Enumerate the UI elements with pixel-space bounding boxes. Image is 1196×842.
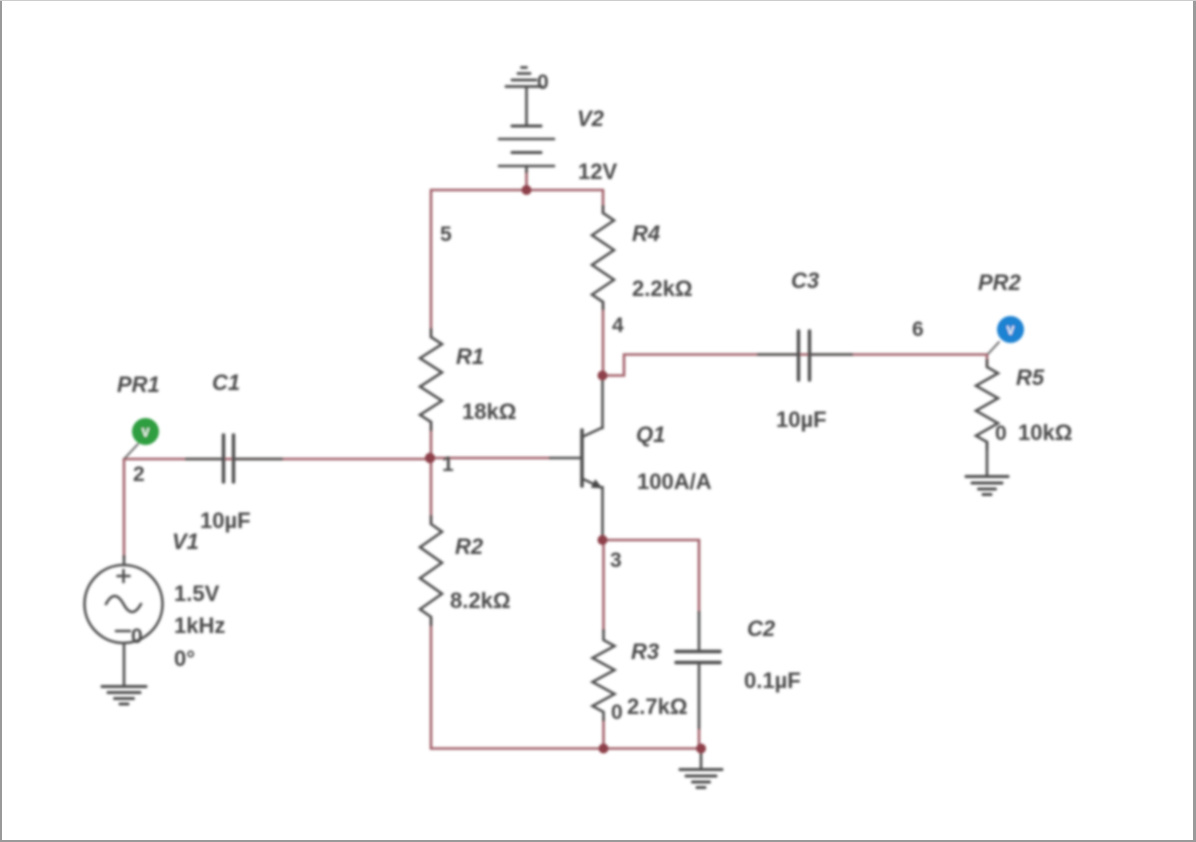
- svg-text:R1: R1: [456, 344, 484, 369]
- junction node 1: [425, 453, 435, 463]
- svg-text:1: 1: [442, 453, 454, 476]
- svg-text:C2: C2: [747, 616, 776, 641]
- svg-text:C3: C3: [791, 268, 819, 293]
- wire R4 bottom to collector node 4: [602, 302, 605, 376]
- transistor Q1: [550, 376, 603, 541]
- wire emitter node 3 to C2 branch: [603, 540, 700, 612]
- resistor R4: [592, 206, 614, 309]
- svg-text:1kHz: 1kHz: [174, 613, 225, 638]
- svg-text:1.5V: 1.5V: [174, 581, 220, 606]
- svg-text:V1: V1: [172, 529, 199, 554]
- wire node 4 step to output: [603, 355, 988, 376]
- probe PR1: [125, 418, 159, 458]
- wire node 5 left column: [430, 190, 433, 337]
- junction node 5/battery: [522, 185, 532, 195]
- ground under V1: [102, 643, 146, 704]
- junction bottom rail R3: [599, 744, 609, 754]
- svg-text:3: 3: [610, 549, 622, 572]
- wire node 1 to R2: [430, 458, 433, 524]
- resistor R5: [976, 360, 998, 449]
- svg-text:100A/A: 100A/A: [637, 469, 712, 494]
- svg-text:R4: R4: [632, 221, 660, 246]
- svg-text:0: 0: [131, 625, 143, 648]
- junction node 3: [598, 535, 608, 545]
- svg-text:C1: C1: [212, 370, 240, 395]
- svg-text:2.2kΩ: 2.2kΩ: [632, 276, 692, 301]
- svg-text:V2: V2: [577, 106, 605, 131]
- capacitor C3: [758, 331, 852, 380]
- svg-text:0: 0: [611, 701, 623, 724]
- svg-text:PR2: PR2: [978, 270, 1022, 295]
- wire node 3 to R3: [602, 540, 605, 631]
- svg-text:18kΩ: 18kΩ: [462, 399, 516, 424]
- svg-text:R3: R3: [631, 639, 659, 664]
- wire output corner to R5: [986, 355, 989, 368]
- wire battery stem to rail: [525, 170, 528, 190]
- svg-text:0: 0: [537, 71, 549, 94]
- svg-text:R5: R5: [1016, 365, 1045, 390]
- svg-text:6: 6: [912, 318, 924, 341]
- ground bottom right: [680, 749, 722, 788]
- wire top rail node 5: [431, 189, 603, 192]
- ground 0 above V2: [506, 68, 542, 87]
- wire base node 1 to Q1: [431, 457, 550, 460]
- svg-text:10µF: 10µF: [776, 407, 827, 432]
- probe PR2: [988, 316, 1024, 354]
- capacitor C1: [186, 435, 282, 482]
- wire node 2 horizontal through C1 to node 1: [124, 458, 431, 461]
- svg-text:PR1: PR1: [117, 372, 160, 397]
- svg-text:2.7kΩ: 2.7kΩ: [627, 694, 687, 719]
- svg-text:4: 4: [612, 314, 624, 337]
- svg-text:8.2kΩ: 8.2kΩ: [450, 588, 510, 613]
- wire R2 to bottom rail: [430, 617, 433, 749]
- junction bottom rail ground: [696, 744, 706, 754]
- svg-text:V: V: [1007, 326, 1015, 338]
- resistor R3: [593, 630, 615, 720]
- junction node 4: [598, 371, 608, 381]
- svg-text:V: V: [142, 428, 150, 440]
- svg-text:R2: R2: [455, 534, 484, 559]
- svg-text:Q1: Q1: [636, 422, 665, 447]
- battery V2: [499, 88, 554, 172]
- svg-text:0.1µF: 0.1µF: [744, 668, 801, 693]
- svg-text:10kΩ: 10kΩ: [1018, 420, 1072, 445]
- resistor R1: [420, 329, 442, 430]
- wire bottom rail: [431, 747, 701, 750]
- AC source V1: [85, 556, 163, 643]
- svg-text:0°: 0°: [174, 646, 195, 671]
- capacitor C2: [676, 612, 720, 728]
- wire C2 bottom to rail: [698, 728, 701, 749]
- svg-text:10µF: 10µF: [200, 508, 251, 533]
- wire R3 bottom to rail: [602, 718, 605, 749]
- svg-text:2: 2: [133, 463, 145, 486]
- svg-text:12V: 12V: [578, 159, 617, 184]
- wire node 2 vertical to V1: [123, 459, 126, 558]
- svg-text:5: 5: [440, 223, 452, 246]
- resistor R2: [420, 516, 442, 625]
- svg-text:0: 0: [995, 422, 1007, 445]
- wire R4 top: [602, 190, 605, 213]
- wire R1 bottom to node 1: [430, 422, 433, 458]
- ground under R5: [966, 442, 1008, 495]
